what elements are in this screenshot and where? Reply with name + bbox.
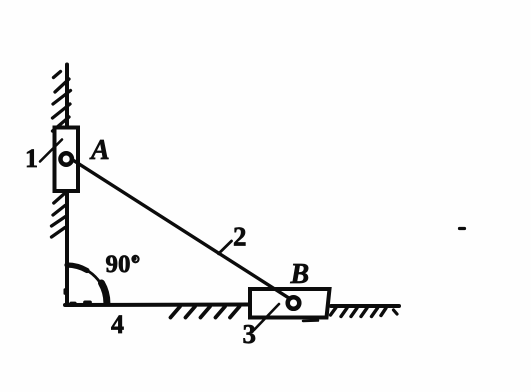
svg-text:90°: 90° — [106, 251, 141, 278]
svg-text:B: B — [290, 259, 310, 290]
svg-text:A: A — [89, 135, 110, 166]
svg-text:3: 3 — [243, 319, 257, 349]
svg-text:4: 4 — [111, 310, 124, 339]
svg-text:2: 2 — [233, 222, 247, 252]
svg-text:1: 1 — [25, 144, 38, 173]
